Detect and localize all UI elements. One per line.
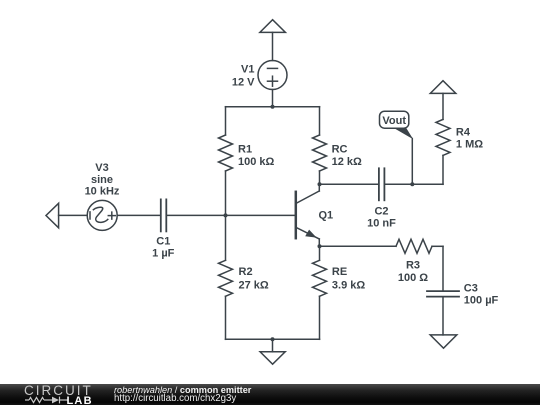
svg-text:R1: R1 [238, 144, 252, 156]
svg-text:R3: R3 [406, 260, 420, 272]
svg-text:100 Ω: 100 Ω [398, 272, 428, 284]
svg-text:12 V: 12 V [232, 76, 255, 88]
svg-text:V1: V1 [241, 63, 254, 75]
svg-text:C2: C2 [374, 205, 388, 217]
svg-text:100 kΩ: 100 kΩ [238, 156, 275, 168]
svg-text:sine: sine [91, 174, 113, 186]
svg-text:1 MΩ: 1 MΩ [456, 139, 483, 151]
svg-text:12 kΩ: 12 kΩ [332, 156, 362, 168]
svg-text:27 kΩ: 27 kΩ [239, 279, 269, 291]
svg-text:1 µF: 1 µF [152, 248, 175, 260]
svg-text:3.9 kΩ: 3.9 kΩ [332, 279, 365, 291]
svg-text:C1: C1 [156, 236, 170, 248]
svg-text:R2: R2 [239, 266, 253, 278]
svg-text:10 nF: 10 nF [367, 217, 396, 229]
svg-text:Vout: Vout [382, 115, 406, 127]
svg-text:100 µF: 100 µF [464, 294, 499, 306]
svg-text:C3: C3 [464, 283, 478, 295]
svg-text:R4: R4 [456, 126, 471, 138]
svg-text:V3: V3 [95, 162, 108, 174]
svg-text:RE: RE [332, 266, 347, 278]
svg-text:RC: RC [332, 144, 348, 156]
svg-text:10 kHz: 10 kHz [85, 186, 120, 198]
svg-text:Q1: Q1 [319, 210, 334, 222]
